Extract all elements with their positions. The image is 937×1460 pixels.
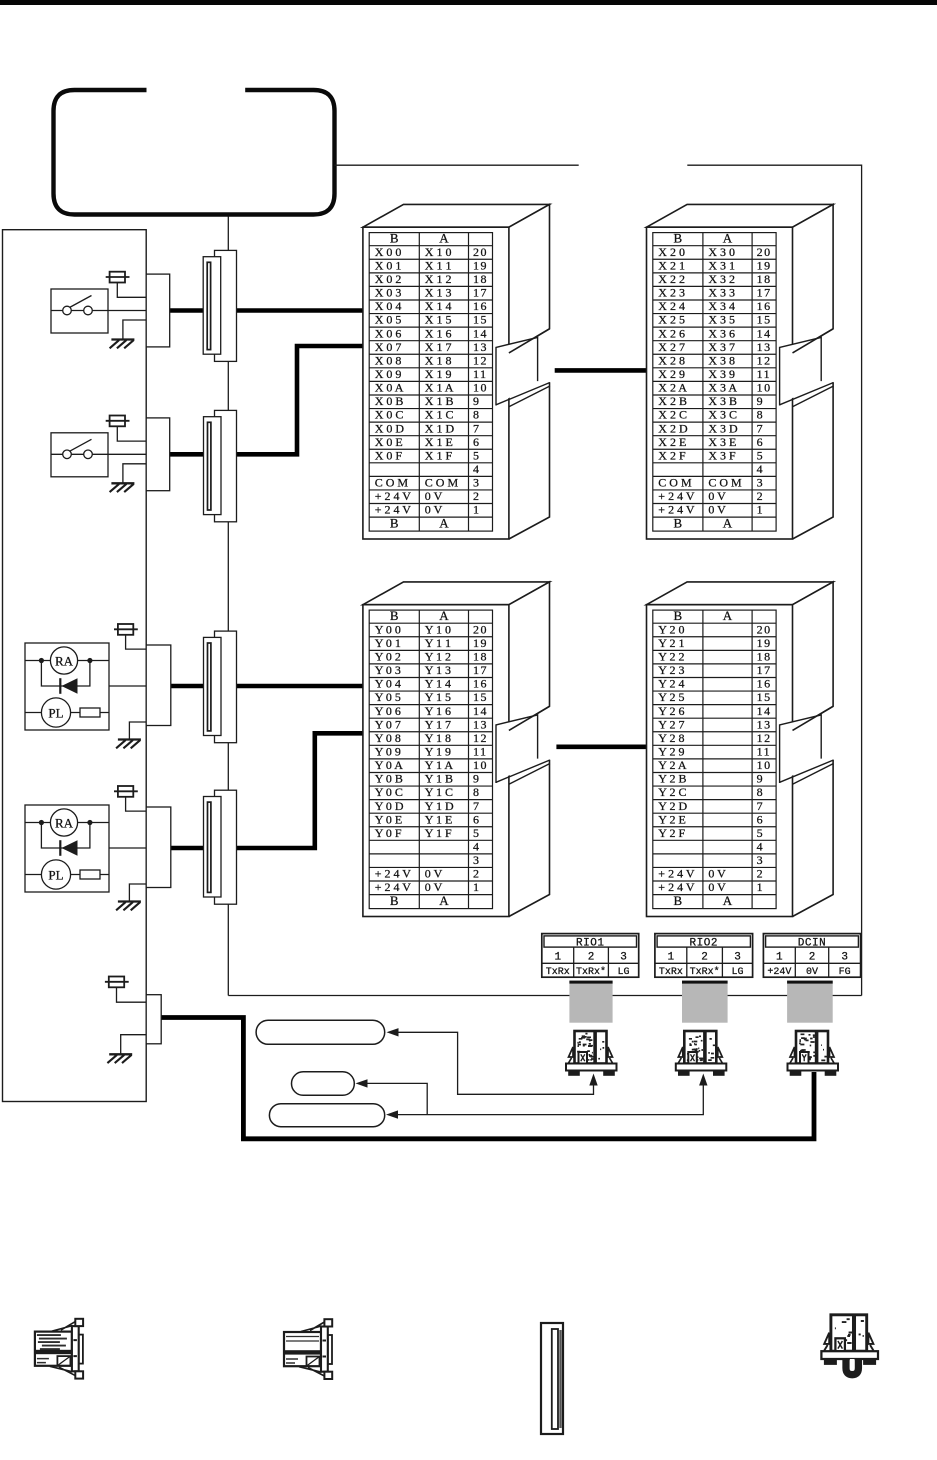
DCIN title cell bbox=[766, 936, 859, 947]
svg-text:Y 0 4: Y 0 4 bbox=[375, 677, 401, 691]
CN3 slot bbox=[208, 643, 211, 731]
svg-text:7: 7 bbox=[757, 799, 765, 813]
svg-text:Y 2 9: Y 2 9 bbox=[658, 745, 684, 759]
svg-text:X 2 9: X 2 9 bbox=[658, 367, 685, 381]
arrow line callout1 to RIO1 connector bbox=[397, 1032, 594, 1094]
svg-text:Y 2 1: Y 2 1 bbox=[658, 636, 684, 650]
I/O module M1 (3D box) bbox=[363, 204, 550, 539]
resistor R4 bbox=[80, 870, 100, 879]
svg-text:9: 9 bbox=[757, 394, 765, 408]
I/O module M2 (3D box) bbox=[647, 204, 834, 539]
junction dot right bbox=[87, 658, 92, 663]
svg-text:X 1 F: X 1 F bbox=[425, 448, 453, 462]
RIO2 outer box bbox=[655, 934, 753, 978]
svg-text:X 1 1: X 1 1 bbox=[425, 258, 452, 272]
fuse F3 bbox=[114, 624, 146, 649]
svg-text:X 2 A: X 2 A bbox=[658, 381, 687, 395]
M2 lower side face bbox=[793, 382, 834, 539]
terminal block T5 bbox=[146, 995, 161, 1044]
svg-text:LG: LG bbox=[618, 967, 630, 978]
wire CNC to cabinet (segment 2) bbox=[687, 164, 861, 166]
cabinet right boundary bbox=[861, 165, 863, 996]
svg-text:Y 1 8: Y 1 8 bbox=[425, 731, 451, 745]
legend icon 1: connector plug side view bbox=[35, 1319, 83, 1379]
svg-text:+ 2 4 V: + 2 4 V bbox=[658, 867, 695, 881]
svg-text:Y 2 F: Y 2 F bbox=[658, 826, 685, 840]
svg-text:18: 18 bbox=[757, 650, 772, 664]
svg-text:Y 1 1: Y 1 1 bbox=[425, 636, 451, 650]
DCIN pin number row bbox=[763, 947, 860, 977]
svg-text:5: 5 bbox=[473, 448, 481, 462]
svg-text:Y 1 3: Y 1 3 bbox=[425, 663, 451, 677]
ground wire 2 bbox=[123, 464, 146, 484]
lamp PL bbox=[41, 698, 70, 727]
svg-text:5: 5 bbox=[757, 826, 765, 840]
legend icon 2: connector plug side view bbox=[284, 1319, 332, 1379]
svg-text:X 3 B: X 3 B bbox=[708, 394, 737, 408]
svg-text:Y 1 E: Y 1 E bbox=[425, 812, 453, 826]
ground wire 3 bbox=[129, 722, 146, 740]
svg-text:+ 2 4 V: + 2 4 V bbox=[375, 867, 412, 881]
svg-text:A: A bbox=[723, 608, 733, 623]
M1 upper side face bbox=[509, 204, 550, 353]
wire switch 1 to terminal bbox=[51, 310, 146, 312]
switch box SW2 bbox=[51, 433, 108, 477]
M2 side connector plug bbox=[780, 337, 822, 405]
svg-text:X 1 7: X 1 7 bbox=[425, 340, 452, 354]
switch contact left bbox=[63, 450, 72, 459]
RIO1 pin number row bbox=[542, 947, 639, 977]
CN1 back plate bbox=[215, 250, 237, 361]
svg-text:12: 12 bbox=[757, 353, 772, 367]
svg-text:Y 0 0: Y 0 0 bbox=[375, 622, 401, 636]
svg-text:8: 8 bbox=[757, 408, 765, 422]
svg-text:Y 1 B: Y 1 B bbox=[425, 772, 453, 786]
switch circuit 1 bbox=[51, 272, 170, 349]
arrow line callout2 branch bbox=[366, 1083, 427, 1114]
CN2 slot bbox=[208, 422, 211, 510]
wire CNC to cabinet (segment 1) bbox=[335, 164, 579, 166]
svg-text:TxRx: TxRx bbox=[659, 967, 683, 978]
M3 side connector plug bbox=[496, 715, 538, 783]
svg-text:+ 2 4 V: + 2 4 V bbox=[375, 489, 412, 503]
svg-text:Y 1 A: Y 1 A bbox=[425, 758, 454, 772]
connector CN3 (plate pair) bbox=[204, 631, 237, 743]
svg-text:Y 1 5: Y 1 5 bbox=[425, 690, 451, 704]
svg-text:X 1 5: X 1 5 bbox=[425, 313, 452, 327]
svg-text:15: 15 bbox=[473, 690, 488, 704]
wire W12: module M1 to module M2 bbox=[555, 368, 647, 373]
CN1 front plate bbox=[203, 257, 221, 355]
svg-text:A: A bbox=[723, 516, 733, 531]
CN4 slot bbox=[208, 802, 211, 892]
svg-text:1: 1 bbox=[668, 952, 675, 964]
svg-text:Y 2 A: Y 2 A bbox=[658, 758, 687, 772]
relay RA bbox=[50, 647, 77, 674]
svg-text:X 1 0: X 1 0 bbox=[425, 245, 452, 259]
M3 terminal table bbox=[369, 610, 492, 909]
svg-text:Y 2 8: Y 2 8 bbox=[658, 731, 684, 745]
M1 front face bbox=[363, 227, 509, 539]
svg-text:19: 19 bbox=[473, 258, 488, 272]
connector CN2 (plate pair) bbox=[204, 410, 237, 521]
RIO1 title cell bbox=[544, 936, 637, 947]
svg-text:16: 16 bbox=[473, 677, 488, 691]
svg-text:14: 14 bbox=[473, 326, 488, 340]
terminal block T3 bbox=[146, 645, 171, 726]
svg-text:8: 8 bbox=[473, 408, 481, 422]
svg-text:4: 4 bbox=[473, 462, 481, 476]
I/O module M3 (3D box) bbox=[363, 582, 550, 917]
svg-text:A: A bbox=[439, 893, 449, 908]
RIO2 pin number row bbox=[655, 947, 753, 977]
svg-text:X 1 E: X 1 E bbox=[425, 435, 453, 449]
svg-text:0 V: 0 V bbox=[425, 489, 443, 503]
svg-text:X 3 D: X 3 D bbox=[708, 421, 738, 435]
svg-text:6: 6 bbox=[757, 435, 765, 449]
svg-text:LG: LG bbox=[731, 967, 743, 978]
svg-text:17: 17 bbox=[757, 663, 772, 677]
M4 front face bbox=[647, 605, 793, 917]
CNC control unit box bbox=[54, 90, 335, 215]
svg-text:X 2 3: X 2 3 bbox=[658, 286, 685, 300]
svg-text:1: 1 bbox=[554, 952, 561, 964]
DCIN outer box bbox=[763, 934, 860, 978]
svg-text:X 3 6: X 3 6 bbox=[708, 326, 735, 340]
svg-text:X 2 F: X 2 F bbox=[658, 448, 686, 462]
svg-text:Y 1 C: Y 1 C bbox=[425, 785, 453, 799]
svg-text:X 1 B: X 1 B bbox=[425, 394, 454, 408]
junction dot right bbox=[87, 820, 92, 825]
wire W1: T1 to module M1 pin X04 bbox=[170, 308, 363, 313]
svg-text:X 3 9: X 3 9 bbox=[708, 367, 735, 381]
svg-text:Y 2 3: Y 2 3 bbox=[658, 663, 684, 677]
ground wire 5 bbox=[121, 1035, 147, 1055]
svg-text:X 1 9: X 1 9 bbox=[425, 367, 452, 381]
wire W34: module M3 to module M4 bbox=[556, 744, 646, 749]
svg-text:X 3 7: X 3 7 bbox=[708, 340, 735, 354]
fuse F2 bbox=[106, 416, 147, 442]
connector 2 base bar bbox=[676, 1064, 727, 1076]
svg-text:X 0 0: X 0 0 bbox=[375, 245, 402, 259]
lamp wire bbox=[25, 874, 109, 876]
svg-text:11: 11 bbox=[757, 745, 772, 759]
svg-text:A: A bbox=[439, 608, 449, 623]
svg-text:X 1 4: X 1 4 bbox=[425, 299, 452, 313]
M1 lower side face bbox=[509, 382, 550, 539]
M4 upper side face bbox=[793, 582, 834, 731]
ground bbox=[110, 483, 135, 492]
M3 front face bbox=[363, 605, 509, 917]
distribution line / cabinet left boundary bbox=[227, 217, 229, 996]
svg-text:3: 3 bbox=[757, 853, 765, 867]
svg-text:X 2 2: X 2 2 bbox=[658, 272, 685, 286]
svg-text:0 V: 0 V bbox=[708, 489, 726, 503]
svg-text:10: 10 bbox=[473, 758, 488, 772]
fuse F5 bbox=[105, 977, 146, 1003]
svg-text:PL: PL bbox=[48, 706, 63, 721]
svg-text:RA: RA bbox=[55, 815, 74, 830]
svg-text:4: 4 bbox=[473, 840, 481, 854]
svg-text:6: 6 bbox=[757, 812, 765, 826]
machine operator panel box bbox=[3, 230, 147, 1102]
relay/lamp circuit 3 bbox=[25, 624, 171, 748]
cable callout 3 (to RIO2) bbox=[269, 1104, 384, 1127]
diode D4 bbox=[59, 840, 61, 856]
svg-text:16: 16 bbox=[473, 299, 488, 313]
svg-text:+24V: +24V bbox=[767, 967, 791, 978]
fuse F4 bbox=[114, 786, 146, 811]
M4 top face bbox=[647, 582, 834, 605]
svg-text:2: 2 bbox=[809, 952, 816, 964]
svg-text:Y 0 5: Y 0 5 bbox=[375, 690, 401, 704]
svg-text:16: 16 bbox=[757, 299, 772, 313]
svg-text:X 1 2: X 1 2 bbox=[425, 272, 452, 286]
diode branch wires bbox=[41, 661, 90, 687]
svg-text:X 3 E: X 3 E bbox=[708, 435, 736, 449]
cable callout 1 (to RIO1) bbox=[256, 1020, 385, 1044]
CN4 back plate bbox=[215, 790, 237, 904]
connector 3 base bar bbox=[788, 1064, 839, 1076]
RIO1 outer box bbox=[542, 934, 639, 978]
svg-text:X 0 F: X 0 F bbox=[375, 448, 403, 462]
svg-text:17: 17 bbox=[473, 286, 488, 300]
M4 terminal table bbox=[653, 610, 776, 909]
ground bbox=[116, 902, 141, 911]
M2 upper side face bbox=[793, 204, 834, 353]
svg-text:X 3 A: X 3 A bbox=[708, 381, 737, 395]
svg-text:B: B bbox=[390, 516, 399, 531]
svg-text:FG: FG bbox=[839, 967, 851, 978]
svg-text:7: 7 bbox=[473, 799, 481, 813]
svg-text:3: 3 bbox=[473, 476, 481, 490]
svg-text:X 0 3: X 0 3 bbox=[375, 286, 402, 300]
svg-text:18: 18 bbox=[473, 272, 488, 286]
svg-text:A: A bbox=[723, 893, 733, 908]
svg-text:11: 11 bbox=[757, 367, 772, 381]
svg-text:Y 2 C: Y 2 C bbox=[658, 785, 686, 799]
svg-text:1: 1 bbox=[473, 503, 481, 517]
resistor R3 bbox=[80, 708, 100, 717]
svg-text:A: A bbox=[439, 231, 449, 246]
svg-text:Y 2 2: Y 2 2 bbox=[658, 650, 684, 664]
svg-text:3: 3 bbox=[757, 476, 765, 490]
CN3 front plate bbox=[204, 637, 222, 735]
svg-text:C O M: C O M bbox=[708, 476, 742, 490]
svg-text:Y 1 4: Y 1 4 bbox=[425, 677, 451, 691]
svg-text:Y 2 7: Y 2 7 bbox=[658, 717, 684, 731]
M2 front face bbox=[647, 227, 793, 539]
M4 side connector plug bbox=[780, 715, 822, 783]
svg-text:5: 5 bbox=[473, 826, 481, 840]
switch contact left bbox=[63, 306, 72, 315]
svg-text:1: 1 bbox=[757, 880, 765, 894]
svg-text:10: 10 bbox=[757, 758, 772, 772]
svg-text:Y 0 6: Y 0 6 bbox=[375, 704, 401, 718]
svg-text:13: 13 bbox=[757, 340, 772, 354]
svg-text:12: 12 bbox=[473, 731, 488, 745]
svg-text:B: B bbox=[390, 608, 399, 623]
svg-text:6: 6 bbox=[473, 435, 481, 449]
svg-text:20: 20 bbox=[757, 622, 772, 636]
svg-text:3: 3 bbox=[841, 952, 848, 964]
svg-text:B: B bbox=[390, 231, 399, 246]
svg-text:X 2 0: X 2 0 bbox=[658, 245, 685, 259]
svg-text:B: B bbox=[674, 231, 683, 246]
wire W3: T3 to module M3 pin Y04 bbox=[171, 684, 363, 689]
svg-text:Y 0 A: Y 0 A bbox=[375, 758, 404, 772]
cable connector icon 4 (X plug) bbox=[824, 1315, 873, 1351]
cable connector icon 3 (Y plug) bbox=[790, 1031, 834, 1064]
M1 terminal table bbox=[369, 233, 492, 531]
svg-text:Y 2 E: Y 2 E bbox=[658, 812, 686, 826]
svg-text:X 0 5: X 0 5 bbox=[375, 313, 402, 327]
svg-text:RIO2: RIO2 bbox=[690, 938, 718, 950]
svg-text:X 2 1: X 2 1 bbox=[658, 258, 685, 272]
svg-text:4: 4 bbox=[757, 840, 765, 854]
svg-text:11: 11 bbox=[473, 367, 488, 381]
CN2 front plate bbox=[204, 417, 222, 515]
svg-text:Y 0 8: Y 0 8 bbox=[375, 731, 401, 745]
svg-text:2: 2 bbox=[757, 489, 765, 503]
M1 top face bbox=[363, 204, 550, 227]
svg-text:X 0 9: X 0 9 bbox=[375, 367, 402, 381]
svg-text:X 1 A: X 1 A bbox=[425, 381, 454, 395]
M3 row labels bbox=[375, 622, 488, 908]
svg-text:X 3 F: X 3 F bbox=[708, 448, 736, 462]
svg-text:12: 12 bbox=[757, 731, 772, 745]
svg-text:X 2 C: X 2 C bbox=[658, 408, 687, 422]
svg-text:C O M: C O M bbox=[375, 476, 409, 490]
svg-text:X 0 A: X 0 A bbox=[375, 381, 404, 395]
svg-text:TxRx*: TxRx* bbox=[576, 966, 606, 978]
svg-text:3: 3 bbox=[734, 952, 741, 964]
legend icon 1 flange bbox=[79, 1335, 83, 1364]
svg-text:14: 14 bbox=[757, 326, 772, 340]
M3 top face bbox=[363, 582, 550, 605]
DCIN mount block bbox=[787, 981, 833, 1023]
svg-text:18: 18 bbox=[473, 650, 488, 664]
svg-text:Y 0 7: Y 0 7 bbox=[375, 717, 401, 731]
svg-text:13: 13 bbox=[473, 717, 488, 731]
svg-text:Y 2 5: Y 2 5 bbox=[658, 690, 684, 704]
svg-text:Y 2 D: Y 2 D bbox=[658, 799, 687, 813]
switch lever bbox=[70, 296, 92, 308]
ground wire 4 bbox=[129, 884, 146, 902]
svg-text:X 3 1: X 3 1 bbox=[708, 258, 735, 272]
svg-text:X 0 C: X 0 C bbox=[375, 408, 404, 422]
svg-text:X 1 6: X 1 6 bbox=[425, 326, 452, 340]
svg-text:B: B bbox=[674, 893, 683, 908]
wire W2: T2 to module M1 pin X07 bbox=[170, 346, 363, 454]
svg-text:10: 10 bbox=[473, 381, 488, 395]
svg-text:18: 18 bbox=[757, 272, 772, 286]
svg-text:X 2 7: X 2 7 bbox=[658, 340, 685, 354]
svg-text:17: 17 bbox=[473, 663, 488, 677]
ground bbox=[116, 740, 141, 749]
svg-text:X 0 2: X 0 2 bbox=[375, 272, 402, 286]
load box 4 bbox=[25, 805, 109, 892]
svg-text:X 0 E: X 0 E bbox=[375, 435, 403, 449]
svg-text:2: 2 bbox=[473, 867, 481, 881]
svg-text:6: 6 bbox=[473, 812, 481, 826]
diode D3 bbox=[59, 678, 61, 694]
svg-text:B: B bbox=[674, 608, 683, 623]
svg-text:X 0 1: X 0 1 bbox=[375, 258, 402, 272]
svg-text:19: 19 bbox=[757, 636, 772, 650]
svg-text:2: 2 bbox=[701, 952, 708, 964]
svg-text:16: 16 bbox=[757, 677, 772, 691]
switch box SW1 bbox=[51, 289, 108, 333]
fuse F1 bbox=[106, 272, 147, 298]
svg-text:3: 3 bbox=[620, 952, 627, 964]
svg-text:10: 10 bbox=[757, 381, 772, 395]
svg-text:X 1 D: X 1 D bbox=[425, 421, 455, 435]
load box 3 bbox=[25, 643, 109, 730]
svg-text:Y 1 0: Y 1 0 bbox=[425, 622, 451, 636]
svg-text:X 3 4: X 3 4 bbox=[708, 299, 735, 313]
M2 row labels bbox=[658, 245, 771, 531]
M1 row labels bbox=[375, 245, 488, 531]
svg-text:1: 1 bbox=[473, 880, 481, 894]
svg-text:X 0 8: X 0 8 bbox=[375, 353, 402, 367]
svg-text:Y 2 0: Y 2 0 bbox=[658, 622, 684, 636]
connector CN1 (plate pair) bbox=[203, 250, 236, 361]
svg-text:Y 2 4: Y 2 4 bbox=[658, 677, 684, 691]
svg-text:Y 0 E: Y 0 E bbox=[375, 812, 403, 826]
svg-text:Y 1 F: Y 1 F bbox=[425, 826, 452, 840]
svg-text:X 2 5: X 2 5 bbox=[658, 313, 685, 327]
M2 top face bbox=[647, 204, 834, 227]
svg-text:7: 7 bbox=[757, 421, 765, 435]
svg-text:13: 13 bbox=[757, 717, 772, 731]
RIO2 mount block bbox=[682, 981, 728, 1023]
CN1 slot bbox=[207, 262, 210, 349]
cabinet bottom boundary bbox=[228, 995, 861, 997]
svg-text:C O M: C O M bbox=[658, 476, 692, 490]
svg-text:X 3 2: X 3 2 bbox=[708, 272, 735, 286]
svg-text:Y 1 2: Y 1 2 bbox=[425, 650, 451, 664]
CN4 front plate bbox=[204, 797, 222, 898]
svg-text:20: 20 bbox=[473, 245, 488, 259]
svg-text:15: 15 bbox=[473, 313, 488, 327]
switch lever bbox=[70, 439, 92, 451]
svg-text:RA: RA bbox=[55, 653, 74, 668]
svg-text:X 3 C: X 3 C bbox=[708, 408, 737, 422]
lamp PL bbox=[41, 860, 70, 889]
terminal block T4 bbox=[146, 807, 171, 888]
diode branch wires bbox=[41, 823, 90, 849]
arrow line callout3 to RIO2 connector bbox=[397, 1085, 704, 1115]
wire to terminal bbox=[109, 685, 146, 687]
svg-text:11: 11 bbox=[473, 745, 488, 759]
svg-text:14: 14 bbox=[757, 704, 772, 718]
svg-text:15: 15 bbox=[757, 690, 772, 704]
svg-text:X 3 8: X 3 8 bbox=[708, 353, 735, 367]
svg-text:13: 13 bbox=[473, 340, 488, 354]
svg-text:X 0 D: X 0 D bbox=[375, 421, 405, 435]
RIO1 mount block bbox=[569, 981, 612, 1023]
page header bar bbox=[0, 0, 937, 5]
terminal strip DCIN bbox=[763, 934, 860, 979]
switch contact right bbox=[84, 450, 93, 459]
svg-text:X 1 8: X 1 8 bbox=[425, 353, 452, 367]
svg-text:X 0 7: X 0 7 bbox=[375, 340, 402, 354]
svg-text:Y 1 7: Y 1 7 bbox=[425, 717, 451, 731]
svg-text:Y 0 C: Y 0 C bbox=[375, 785, 403, 799]
svg-text:Y 0 1: Y 0 1 bbox=[375, 636, 401, 650]
svg-text:X 1 C: X 1 C bbox=[425, 408, 454, 422]
